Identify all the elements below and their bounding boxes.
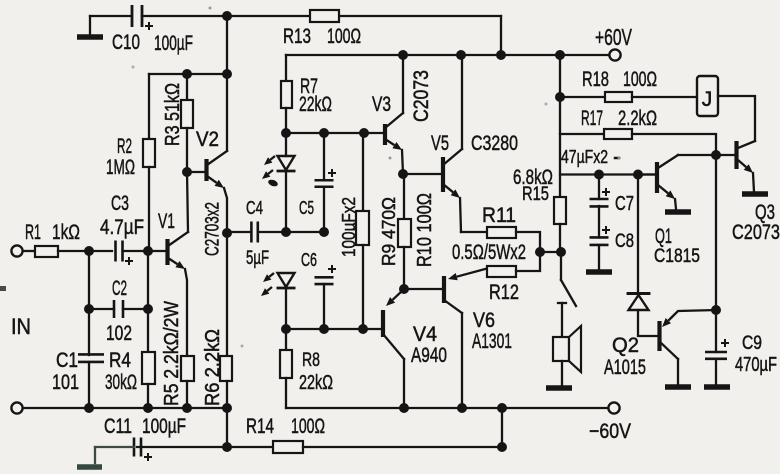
svg-text:100Ω: 100Ω — [327, 25, 361, 48]
scan artifacts — [0, 286, 6, 291]
resistor R15 6.8k — [559, 55, 561, 197]
node — [633, 170, 643, 180]
resistor R4 30k — [142, 352, 155, 384]
capacitor C2 102 — [88, 251, 90, 309]
svg-text:100Ω: 100Ω — [291, 415, 325, 438]
wire — [226, 16, 228, 74]
node — [456, 50, 466, 60]
transistor V6 A1301 PNP output — [442, 276, 446, 303]
svg-text:C9: C9 — [742, 333, 762, 354]
svg-text:A1301: A1301 — [472, 330, 512, 353]
node V2 emitter C4 R6 — [222, 228, 232, 238]
transistor V4 A940 PNP driver — [381, 310, 385, 337]
ground Q2 collector — [665, 384, 691, 390]
svg-text:V5: V5 — [431, 132, 449, 155]
node Q3 base node — [711, 150, 721, 160]
node — [319, 128, 329, 138]
switch to speaker — [560, 252, 562, 280]
ground Q3 emitter — [742, 191, 768, 197]
node — [496, 50, 506, 60]
transistor Q3 C2073 protection NPN — [734, 141, 738, 169]
wire top supply rail from C10 to R13 — [90, 15, 132, 17]
svg-text:+60V: +60V — [595, 24, 632, 50]
wire R13 right to +60V rail — [500, 16, 502, 55]
svg-text:C1815: C1815 — [654, 246, 700, 267]
wire J to Q3 collector — [718, 96, 755, 141]
svg-text:22kΩ: 22kΩ — [299, 93, 332, 116]
node — [143, 304, 153, 314]
capacitor C9 470uF — [715, 310, 717, 352]
resistor R14 100 — [227, 446, 273, 448]
capacitor C10 — [132, 5, 142, 27]
svg-text:100µF: 100µF — [142, 415, 186, 438]
transistor V1 C2703 input NPN — [165, 239, 169, 265]
node R3 bottom V2 base V1 collector — [182, 167, 192, 177]
node R18 tap — [555, 92, 565, 102]
node — [182, 69, 192, 79]
svg-text:C3280: C3280 — [471, 132, 518, 155]
svg-text:470µF: 470µF — [735, 354, 777, 376]
resistor R8 22k — [285, 329, 287, 350]
ground speaker — [546, 385, 572, 391]
resistor R9 470 — [362, 133, 364, 211]
speaker — [553, 337, 569, 361]
node — [84, 246, 94, 256]
svg-text:47µFx2: 47µFx2 — [561, 147, 608, 167]
transistor Q1 C1815 protection NPN — [655, 162, 659, 193]
transistor V2 C2703 NPN — [204, 159, 208, 181]
transistor V3 C2073 pre-driver — [383, 124, 387, 145]
capacitor C6 100uF — [328, 265, 336, 273]
node — [281, 128, 291, 138]
node junction top rail — [222, 11, 232, 21]
node — [457, 403, 467, 413]
resistor R11 0.5 ohm emitter resistor — [461, 231, 487, 233]
svg-text:Q1: Q1 — [655, 225, 672, 248]
svg-text:C2703x2: C2703x2 — [203, 202, 224, 256]
node — [143, 246, 153, 256]
svg-text:R5 2.2kΩ/2W: R5 2.2kΩ/2W — [161, 301, 183, 406]
wire output sense line 47uFx2 node — [560, 173, 657, 175]
transistor V5 C3280 driver NPN — [441, 157, 445, 192]
node — [398, 50, 408, 60]
svg-text:R18: R18 — [582, 68, 609, 91]
svg-text:102: 102 — [106, 322, 132, 345]
svg-text:30kΩ: 30kΩ — [105, 371, 137, 394]
node — [222, 69, 232, 79]
svg-text:C1: C1 — [56, 349, 78, 372]
node — [555, 50, 565, 60]
svg-text:V4: V4 — [413, 323, 437, 346]
wire — [142, 15, 501, 17]
svg-text:J: J — [702, 88, 713, 111]
node — [556, 247, 566, 257]
capacitor C7 47uF — [598, 175, 600, 200]
svg-text:0.5Ω/5Wx2: 0.5Ω/5Wx2 — [452, 241, 526, 264]
resistor R18 100 — [560, 96, 605, 98]
svg-text:2.2kΩ: 2.2kΩ — [618, 107, 657, 130]
svg-text:R6 2.2kΩ: R6 2.2kΩ — [202, 329, 224, 406]
svg-text:100µF: 100µF — [154, 32, 193, 55]
svg-text:1MΩ: 1MΩ — [106, 156, 135, 179]
relay J — [697, 76, 718, 116]
resistor R6 2.2k — [226, 233, 228, 356]
svg-text:V2: V2 — [196, 128, 219, 151]
ground C11 — [77, 464, 102, 470]
terminal input top — [11, 245, 22, 256]
svg-text:Q2: Q2 — [612, 334, 639, 357]
svg-text:A940: A940 — [411, 344, 447, 367]
wire +60V rail — [286, 54, 609, 56]
svg-text:R1: R1 — [25, 221, 41, 244]
resistor R7 22k — [285, 55, 287, 81]
svg-text:101: 101 — [52, 371, 79, 394]
svg-text:5µF: 5µF — [246, 248, 269, 269]
resistor R3 51k — [186, 74, 188, 100]
wire V3 base node line — [286, 132, 384, 134]
node — [281, 324, 291, 334]
resistor R10 100 — [403, 174, 405, 219]
svg-text:R14: R14 — [246, 415, 274, 438]
capacitor C1 101 — [88, 309, 90, 355]
svg-text:C2: C2 — [112, 277, 127, 300]
wire V5 base — [403, 173, 442, 175]
svg-text:R15: R15 — [522, 184, 549, 205]
node — [84, 403, 94, 413]
node V3 emitter — [398, 169, 408, 179]
svg-text:V6: V6 — [473, 309, 495, 332]
wire V4 base node line — [286, 328, 382, 330]
capacitor C8 47uF — [602, 226, 610, 234]
node output junction — [535, 247, 545, 257]
node R10 bottom V4 emitter V6 base — [399, 284, 409, 294]
node — [497, 403, 507, 413]
LED D1 bias diode — [285, 133, 287, 156]
terminal -60V — [608, 402, 619, 413]
node — [319, 324, 329, 334]
svg-text:C3: C3 — [111, 192, 129, 215]
node — [399, 403, 409, 413]
svg-text:C11: C11 — [104, 415, 132, 438]
wire C2 node to R4 — [147, 309, 149, 352]
svg-text:R2: R2 — [117, 135, 132, 158]
capacitor C4 5uF input to driver — [227, 231, 251, 233]
transistor Q2 A1015 PNP — [657, 321, 661, 351]
wire bottom negative rail right segment — [286, 407, 608, 409]
svg-text:C5: C5 — [299, 198, 314, 218]
wire V1 base — [148, 250, 166, 252]
svg-text:R12: R12 — [489, 281, 519, 304]
wire V6 base — [404, 288, 443, 290]
svg-text:C2073: C2073 — [410, 70, 433, 122]
resistor R1 1k — [23, 250, 35, 252]
node — [319, 227, 329, 237]
node — [594, 170, 604, 180]
svg-text:R8: R8 — [302, 350, 320, 371]
svg-text:1kΩ: 1kΩ — [52, 221, 80, 244]
terminal input bottom — [11, 402, 22, 413]
svg-text:V1: V1 — [158, 210, 175, 233]
wire bottom negative rail left segment — [23, 407, 227, 409]
diode VD1 — [637, 175, 639, 293]
svg-text:A1015: A1015 — [604, 356, 646, 379]
node — [358, 324, 368, 334]
svg-text:R17: R17 — [581, 107, 603, 130]
svg-text:V3: V3 — [372, 93, 391, 116]
svg-text:C7: C7 — [615, 193, 634, 215]
ground Q1 emitter — [665, 209, 691, 215]
capacitor C3 4.7uF — [89, 250, 112, 252]
svg-text:R3 51kΩ: R3 51kΩ — [162, 83, 184, 146]
svg-text:−60V: −60V — [589, 420, 631, 443]
svg-text:C6: C6 — [301, 250, 317, 270]
svg-text:C4: C4 — [246, 198, 263, 218]
node — [143, 403, 153, 413]
resistor R5 2.2k/2W — [181, 356, 194, 381]
svg-text:22kΩ: 22kΩ — [299, 372, 333, 394]
node — [497, 442, 507, 452]
capacitor C5 100uF — [323, 133, 325, 180]
svg-text:R11: R11 — [482, 204, 516, 227]
wire vertical to output — [715, 155, 717, 310]
svg-text:C2073: C2073 — [732, 221, 780, 244]
svg-text:C10: C10 — [112, 31, 140, 54]
capacitor C11 100uF — [226, 408, 228, 447]
node — [182, 403, 192, 413]
node — [222, 403, 232, 413]
node — [359, 128, 369, 138]
resistor R2 1M bias — [148, 74, 150, 139]
wire — [540, 251, 561, 253]
node — [281, 227, 291, 237]
ground below C8 — [586, 269, 612, 275]
svg-text:C8: C8 — [615, 231, 634, 252]
ground below C9 — [704, 384, 730, 390]
wire bias node line — [149, 73, 227, 75]
resistor R13 — [310, 10, 339, 22]
svg-text:4.7µF: 4.7µF — [100, 216, 144, 239]
LED D2 bias diode — [278, 273, 295, 287]
svg-text:R9 470Ω: R9 470Ω — [379, 197, 399, 266]
svg-text:R10 100Ω: R10 100Ω — [414, 193, 436, 267]
svg-text:R13: R13 — [283, 25, 311, 48]
node — [222, 442, 232, 452]
svg-text:R4: R4 — [109, 349, 131, 372]
resistor R12 0.5 ohm emitter resistor — [487, 266, 516, 277]
resistor R17 2.2k — [560, 133, 604, 135]
svg-text:IN: IN — [11, 314, 31, 339]
node Q2 emitter C9 junction — [711, 305, 721, 315]
terminal +60V — [609, 49, 620, 60]
node — [84, 304, 94, 314]
ground — [89, 16, 91, 35]
svg-text:100Ω: 100Ω — [623, 68, 657, 91]
